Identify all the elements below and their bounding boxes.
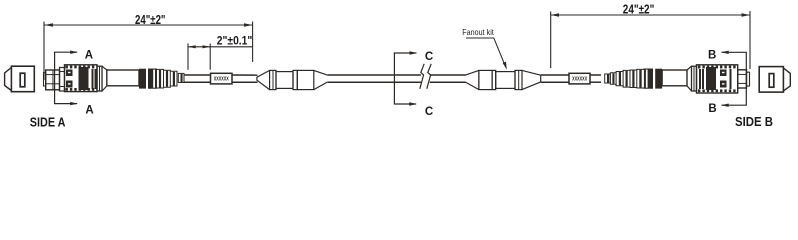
label tube B	[569, 73, 590, 84]
dust cap B nose	[783, 68, 790, 91]
connector A collar chamfer	[102, 66, 107, 91]
extension line left 24in side B	[550, 12, 552, 69]
svg-text:A: A	[85, 50, 93, 62]
connector A front housing	[60, 68, 65, 92]
connector B label block	[706, 67, 716, 90]
cable break symbol	[420, 64, 424, 89]
connector B bottom teeth row	[698, 89, 700, 92]
arrowhead A top	[70, 51, 78, 54]
dust cap B slot	[769, 74, 774, 88]
connector A top teeth row	[66, 66, 68, 69]
cable A label to fanout	[232, 74, 258, 76]
section C bracket	[394, 53, 416, 104]
connector B main body	[697, 65, 738, 93]
arrowhead left 2in	[188, 45, 196, 48]
dust cap A body	[11, 66, 34, 92]
arrowhead B top	[721, 51, 729, 54]
boot B big dark block	[655, 69, 662, 89]
boot B envelope	[610, 69, 652, 88]
ferrule connector A	[46, 70, 60, 90]
svg-text:24"±2": 24"±2"	[623, 2, 655, 17]
arrowhead left 24in A	[45, 23, 54, 27]
svg-text:C: C	[425, 106, 433, 118]
fanout A band left	[270, 70, 276, 89]
connector B top teeth row	[698, 66, 700, 69]
dust cap B body	[759, 67, 783, 93]
svg-text:SIDE B: SIDE B	[735, 115, 773, 129]
cable A boot to label	[184, 74, 211, 76]
connector A rear tube	[107, 70, 139, 86]
connector B rear tube	[662, 70, 687, 86]
dust cap A nose	[5, 68, 12, 91]
dimension line 24in side A	[45, 24, 253, 26]
extension line left of 24in side A dim	[43, 22, 45, 81]
arrowhead right 24in A	[244, 23, 253, 27]
arrowhead C bottom	[409, 102, 417, 105]
fanout A band mid	[293, 70, 297, 89]
boot A crimp sleeve	[178, 73, 184, 82]
fanout B band right	[515, 70, 522, 89]
boot A dark unit fill	[149, 69, 157, 88]
arrowhead left 24in B	[551, 13, 559, 17]
cable label B to boot B	[590, 74, 601, 76]
fanout B tube 2	[496, 72, 515, 89]
fanout B cone right	[522, 70, 541, 89]
boot B crimp sleeve	[605, 74, 611, 83]
ferrule connector B tip	[747, 72, 750, 86]
arrowhead B bottom	[721, 104, 729, 107]
dust cap A slot	[20, 73, 25, 87]
ferrule connector B	[738, 70, 747, 88]
dimension line 24in side B	[551, 14, 750, 16]
leader line fanout kit	[466, 38, 506, 67]
svg-text:C: C	[425, 51, 433, 63]
arrowhead fanout leader	[503, 62, 507, 70]
svg-text:B: B	[708, 103, 716, 115]
svg-text:SIDE A: SIDE A	[30, 116, 66, 130]
boot A big dark block	[139, 69, 146, 89]
connector A bottom teeth row	[66, 88, 68, 91]
svg-text:XXXXXX: XXXXXX	[214, 77, 229, 83]
cable fanout B to label B	[541, 74, 569, 76]
connector A collar band	[97, 66, 102, 91]
arrowhead right 2in	[203, 45, 211, 48]
extension line right 2in dim	[209, 44, 211, 70]
svg-text:Fanout kit: Fanout kit	[462, 27, 494, 37]
connector B left stripes	[699, 69, 701, 89]
arrowhead A bottom	[70, 102, 78, 105]
connector A label block	[79, 67, 89, 90]
arrowhead right 24in B	[742, 13, 751, 17]
dimension line 2in	[188, 46, 253, 48]
ferrule connector A tip	[44, 73, 46, 87]
connector A left latch blocks	[66, 70, 73, 77]
fanout A large tube	[297, 70, 314, 89]
cable break to fanout B	[430, 74, 466, 76]
boot A envelope	[149, 69, 178, 88]
fanout A tube	[276, 72, 293, 89]
connector B right latch blocks	[720, 70, 727, 77]
svg-text:24"±2": 24"±2"	[135, 12, 166, 27]
extension line left 2in dim	[187, 44, 189, 70]
connector B collar band	[692, 66, 697, 91]
connector A main body	[65, 65, 98, 92]
fanout A cone right	[314, 70, 328, 89]
svg-text:XXXXXX: XXXXXX	[572, 77, 587, 83]
section A bracket	[55, 52, 77, 103]
extension line right 24in side B	[749, 11, 751, 69]
svg-text:B: B	[708, 49, 716, 61]
fanout B taper left	[465, 70, 479, 89]
label tube A	[211, 73, 233, 84]
connector A right stripes	[92, 69, 94, 89]
connector B collar chamfer	[687, 66, 692, 91]
boot A spool bars	[159, 70, 161, 88]
extension line right of 24in side A dim	[252, 22, 254, 63]
fanout A cone left	[257, 70, 270, 89]
section B bracket	[722, 52, 747, 105]
boot B dark unit fill	[644, 69, 653, 88]
arrowhead C top	[410, 51, 418, 54]
svg-text:2"±0.1": 2"±0.1"	[217, 33, 253, 47]
cable fanout A to break	[328, 74, 421, 76]
fanout B band mid	[492, 70, 496, 89]
fanout B tube 1	[479, 70, 492, 89]
boot B spool bars	[612, 73, 614, 84]
svg-text:A: A	[85, 105, 93, 117]
